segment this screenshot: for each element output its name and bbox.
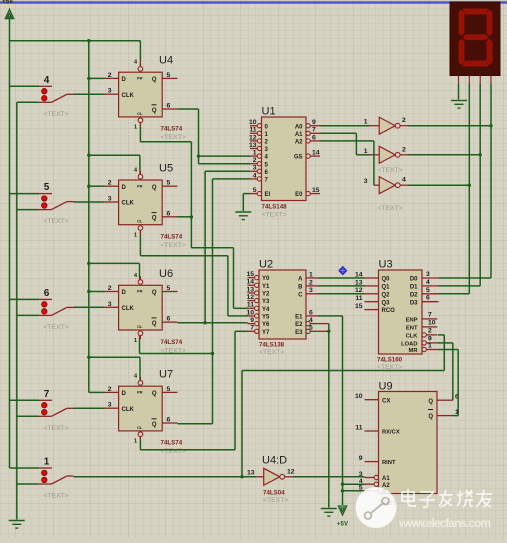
svg-text:E0: E0 — [295, 192, 303, 198]
wire: switch6 output to U6 CLK — [74, 306, 105, 308]
svg-text:CLK: CLK — [122, 201, 135, 207]
svg-text:Y6: Y6 — [262, 322, 270, 328]
wire: U2 B to U3 Q1 — [318, 285, 365, 287]
svg-text:Q2: Q2 — [382, 292, 391, 298]
svg-text:11: 11 — [249, 127, 256, 134]
svg-text:CLK: CLK — [122, 93, 135, 99]
svg-text:A0: A0 — [295, 124, 303, 130]
svg-text:2: 2 — [108, 72, 112, 79]
svg-text:B: B — [298, 285, 303, 291]
wire: display pin b column down to U3 D2 — [439, 84, 470, 294]
wire: switch5 output to U5 CLK — [74, 201, 105, 203]
buffer gate G1 (from U1 A0) — [364, 117, 408, 134]
wire: rail C to U4 D — [87, 77, 104, 80]
svg-text:D0: D0 — [410, 277, 418, 283]
wire: switch7 output to U7 CLK — [74, 407, 105, 409]
wire: +5V left rail — [9, 19, 11, 469]
wire: U9 Q up to U3 LOAD — [437, 343, 453, 400]
svg-text:<TEXT>: <TEXT> — [259, 349, 284, 356]
svg-text:Q: Q — [428, 414, 433, 420]
decorative watermark (not a circuit element) — [356, 487, 493, 530]
svg-text:PR: PR — [137, 390, 143, 395]
svg-text:A2: A2 — [295, 140, 303, 146]
svg-text:www.elecfans.com: www.elecfans.com — [398, 516, 491, 530]
wire: U7 CLR chain up to U2 Y7 — [140, 331, 247, 450]
svg-text:74LS74: 74LS74 — [161, 339, 183, 346]
svg-text:+5V: +5V — [337, 521, 349, 528]
svg-text:4: 4 — [402, 177, 406, 184]
svg-text:6: 6 — [309, 309, 313, 316]
svg-text:5: 5 — [167, 285, 171, 292]
wire: rail C to U5 D — [87, 185, 104, 188]
svg-text:10: 10 — [246, 309, 254, 316]
svg-text:<TEXT>: <TEXT> — [43, 218, 68, 225]
wire: U4:D output to U9 A1 — [293, 476, 365, 478]
svg-text:3: 3 — [108, 301, 112, 308]
svg-text:15: 15 — [312, 187, 320, 194]
7-segment display — [450, 2, 500, 84]
svg-text:Q3: Q3 — [382, 300, 391, 306]
svg-text:CLK: CLK — [406, 334, 419, 340]
svg-text:3: 3 — [426, 271, 430, 278]
svg-text:U4:D: U4:D — [262, 455, 287, 467]
svg-text:2: 2 — [108, 386, 112, 393]
svg-text:6: 6 — [312, 134, 316, 141]
wire: gate G3 output to display pin b — [408, 184, 471, 187]
svg-text:E3: E3 — [295, 330, 303, 336]
svg-text:4: 4 — [253, 172, 257, 179]
svg-text:1: 1 — [44, 457, 50, 468]
wire: rail C to U6 PR — [87, 262, 139, 280]
wire: rail C end to U7 D — [89, 391, 105, 393]
svg-text:10: 10 — [355, 393, 363, 400]
IC U3 (74LS160 counter) — [355, 259, 439, 372]
svg-text:<TEXT>: <TEXT> — [43, 493, 68, 500]
svg-text:Y0: Y0 — [262, 276, 270, 282]
ground: near U1 EI — [235, 212, 251, 220]
svg-text:D: D — [122, 77, 127, 83]
wire: display pin a to ground — [458, 84, 460, 100]
svg-text:3: 3 — [364, 178, 368, 185]
svg-text:3: 3 — [253, 165, 257, 172]
svg-text:<TEXT>: <TEXT> — [263, 497, 288, 504]
svg-text:D1: D1 — [410, 285, 418, 291]
svg-text:13: 13 — [246, 286, 254, 293]
svg-text:5: 5 — [426, 287, 430, 294]
svg-text:C: C — [298, 292, 303, 298]
wire: U2 E2/E3 to ground — [318, 324, 330, 508]
wire: U2 E1 to +5V rail — [318, 316, 344, 505]
svg-text:D3: D3 — [410, 300, 418, 306]
svg-text:CLK: CLK — [122, 407, 135, 413]
svg-text:1: 1 — [364, 148, 368, 155]
svg-text:5: 5 — [167, 180, 171, 187]
buffer gate G3 (from U1 A2) — [364, 177, 408, 194]
wire: U2 A to U3 Q0 — [318, 277, 365, 279]
switch 1 — [10, 457, 74, 500]
svg-text:1: 1 — [309, 271, 313, 278]
svg-text:74LS74: 74LS74 — [161, 126, 183, 133]
wire: U5 CLR chain down to U2 Y5 — [140, 230, 247, 316]
wire: U6 CLR to U7 Qbar and U1 input7 — [140, 179, 251, 424]
svg-text:D: D — [122, 391, 127, 397]
svg-text:3: 3 — [108, 402, 112, 409]
svg-text:PR: PR — [137, 183, 143, 188]
wire: rail C to U5 PR — [87, 154, 140, 175]
wire: blue top border — [0, 1, 507, 3]
wire: gate G1 output to display pin d — [408, 124, 493, 127]
svg-text:74LS138: 74LS138 — [259, 342, 285, 349]
svg-text:CLK: CLK — [122, 306, 135, 312]
svg-text:GS: GS — [294, 155, 303, 161]
wire: display pin d column down to U3 D0 — [439, 84, 492, 278]
svg-text:PR: PR — [137, 289, 143, 294]
svg-text:Q: Q — [428, 399, 433, 405]
wire: display pin c column down to U3 D1 — [439, 84, 481, 286]
svg-text:12: 12 — [287, 468, 295, 475]
wire: U4 CLR chain down to U2 Y4 — [140, 122, 247, 308]
svg-text:<TEXT>: <TEXT> — [377, 167, 402, 174]
power +5V arrow terminal top-left — [5, 10, 13, 19]
svg-text:2: 2 — [309, 279, 313, 286]
switch 5 — [10, 182, 74, 225]
svg-text:RINT: RINT — [382, 460, 396, 466]
svg-text:5: 5 — [309, 325, 313, 332]
svg-text:U9: U9 — [379, 381, 393, 393]
svg-text:5: 5 — [167, 386, 171, 393]
svg-text:U7: U7 — [159, 369, 173, 381]
svg-text:1: 1 — [253, 150, 257, 157]
switch 7 — [10, 389, 74, 432]
svg-text:1: 1 — [134, 125, 137, 131]
svg-text:Q: Q — [152, 185, 157, 191]
IC U9 (74121 monostable) — [355, 381, 459, 508]
svg-text:Y1: Y1 — [262, 284, 270, 290]
svg-text:<TEXT>: <TEXT> — [43, 324, 68, 331]
svg-text:74LS160: 74LS160 — [377, 357, 403, 364]
ground: display common — [451, 101, 467, 109]
svg-text:Q: Q — [152, 321, 157, 327]
svg-text:U1: U1 — [262, 106, 276, 118]
svg-text:E2: E2 — [295, 322, 303, 328]
svg-text:3: 3 — [309, 287, 313, 294]
ground: below U2 enable chain — [321, 509, 337, 517]
svg-text:4: 4 — [426, 279, 430, 286]
svg-text:74LS74: 74LS74 — [161, 234, 183, 241]
svg-text:15: 15 — [246, 271, 254, 278]
svg-text:ENP: ENP — [406, 318, 418, 324]
svg-text:3: 3 — [108, 88, 112, 95]
svg-text:U6: U6 — [159, 268, 173, 280]
svg-text:9: 9 — [250, 317, 254, 324]
svg-text:CL: CL — [137, 324, 143, 329]
IC U1 (74LS148 priority encoder) — [249, 106, 320, 219]
svg-text:RCO: RCO — [382, 308, 396, 314]
IC U2 (74LS138 decoder) — [246, 259, 318, 357]
svg-text:D2: D2 — [410, 292, 418, 298]
svg-text:4: 4 — [309, 317, 313, 324]
switch 4 — [10, 75, 74, 118]
wire: U1 A0 to gate G1 — [320, 125, 370, 127]
svg-text:Y3: Y3 — [262, 299, 270, 305]
svg-text:11: 11 — [355, 295, 362, 302]
svg-text:10: 10 — [428, 320, 436, 327]
svg-text:LOAD: LOAD — [401, 342, 417, 348]
svg-text:Y4: Y4 — [262, 307, 270, 313]
wire: U1 EI to ground — [243, 194, 250, 211]
svg-text:<TEXT>: <TEXT> — [262, 212, 287, 219]
svg-text:2: 2 — [402, 146, 406, 153]
svg-text:<TEXT>: <TEXT> — [161, 242, 186, 249]
flip-flop U7 (74LS74) — [105, 369, 186, 456]
wire: rail C to U7 PR — [87, 356, 140, 381]
svg-text:11: 11 — [355, 424, 362, 431]
wire: U9 B to +5V net — [343, 490, 365, 492]
svg-text:6: 6 — [167, 210, 171, 217]
svg-text:4: 4 — [44, 75, 50, 86]
flip-flop U6 (74LS74) — [105, 268, 186, 355]
svg-text:U4: U4 — [159, 55, 173, 67]
svg-text:13: 13 — [249, 142, 257, 149]
svg-text:12: 12 — [246, 294, 254, 301]
wire: vertical +5V distribution rail C — [88, 41, 90, 393]
svg-text:1: 1 — [428, 342, 432, 349]
svg-text:CL: CL — [137, 111, 143, 116]
wire: switch1 output to U4:D input — [74, 475, 257, 478]
flip-flop U5 (74LS74) — [105, 163, 186, 250]
svg-text:6: 6 — [167, 103, 171, 110]
label TEXT under gate G2 — [377, 167, 402, 174]
switch 6 — [10, 288, 74, 331]
svg-text:74LS148: 74LS148 — [262, 204, 288, 211]
svg-text:7: 7 — [250, 325, 254, 332]
svg-text:10: 10 — [249, 119, 257, 126]
svg-text:Q1: Q1 — [382, 285, 391, 291]
svg-text:1: 1 — [364, 119, 368, 126]
inverter U4:D (74LS04) — [247, 455, 295, 505]
svg-text:Q: Q — [152, 108, 157, 114]
svg-text:Q0: Q0 — [382, 277, 391, 283]
svg-text:6: 6 — [167, 417, 171, 424]
svg-text:A2: A2 — [382, 483, 390, 489]
svg-text:2: 2 — [428, 328, 432, 335]
label TEXT under gate G3 — [377, 205, 402, 212]
svg-text:A1: A1 — [382, 476, 390, 482]
svg-text:E1: E1 — [295, 315, 303, 321]
svg-text:Q: Q — [152, 422, 157, 428]
wire: U4:D input tap up to U3 CLK — [242, 335, 444, 477]
wire: U1 A1 to gate G2 — [320, 133, 370, 155]
wire: U9 A2 to +5V net — [343, 483, 365, 485]
svg-text:U5: U5 — [159, 163, 173, 175]
power +5V arrow terminal bottom — [337, 506, 349, 528]
wire: U9 Qbar up to U3 MR — [437, 350, 458, 416]
svg-text:1: 1 — [134, 233, 137, 239]
svg-text:2: 2 — [108, 285, 112, 292]
svg-text:<TEXT>: <TEXT> — [43, 111, 68, 118]
svg-text:Y2: Y2 — [262, 292, 270, 298]
svg-text:A: A — [298, 277, 303, 283]
svg-text:11: 11 — [247, 302, 254, 309]
svg-text:D: D — [122, 290, 127, 296]
svg-text:9: 9 — [312, 119, 316, 126]
wire: gate G2 output to display pin c — [408, 153, 482, 156]
svg-text:D: D — [122, 185, 127, 191]
wire: top horizontal +5V feed — [10, 39, 141, 42]
svg-text:2: 2 — [402, 117, 406, 124]
svg-text:RX/CX: RX/CX — [382, 430, 400, 436]
svg-text:2: 2 — [253, 157, 257, 164]
wire: U4 Qbar to U1 inputs 4 and 5 — [178, 109, 251, 164]
svg-text:Y7: Y7 — [262, 330, 270, 336]
svg-text:5: 5 — [44, 182, 50, 193]
svg-text:1: 1 — [134, 338, 137, 344]
svg-text:<TEXT>: <TEXT> — [43, 425, 68, 432]
svg-text:Q: Q — [152, 391, 157, 397]
svg-text:15: 15 — [355, 303, 363, 310]
svg-text:CX: CX — [382, 398, 390, 404]
svg-text:3: 3 — [108, 196, 112, 203]
wire: U2 C to U3 Q2 — [318, 293, 365, 295]
svg-text:<TEXT>: <TEXT> — [161, 134, 186, 141]
svg-text:ENT: ENT — [406, 326, 418, 332]
node: blue origin marker — [339, 267, 347, 275]
wire: U4 PR from +5V feed — [139, 41, 141, 66]
svg-text:1: 1 — [134, 439, 137, 445]
svg-text:EI: EI — [265, 192, 271, 198]
wire: U6 Qbar to U1 input6 and U2 Y6 — [178, 171, 251, 324]
svg-text:6: 6 — [426, 295, 430, 302]
svg-text:+5V: +5V — [2, 0, 14, 5]
svg-text:Q: Q — [152, 77, 157, 83]
svg-text:13: 13 — [247, 470, 255, 477]
svg-text:6: 6 — [44, 288, 50, 299]
svg-text:7: 7 — [44, 389, 50, 400]
svg-text:7: 7 — [428, 312, 432, 319]
svg-text:5: 5 — [253, 187, 257, 194]
svg-text:Q: Q — [152, 290, 157, 296]
buffer gate G2 (from U1 A1) — [364, 146, 408, 163]
svg-text:Q: Q — [152, 216, 157, 222]
svg-text:5: 5 — [167, 72, 171, 79]
svg-text:U2: U2 — [259, 259, 273, 271]
svg-text:6: 6 — [167, 316, 171, 323]
wire: rail C to U6 D — [87, 290, 104, 293]
svg-text:74LS04: 74LS04 — [263, 490, 285, 497]
svg-text:Y5: Y5 — [262, 315, 270, 321]
svg-text:PR: PR — [137, 76, 143, 81]
svg-text:CL: CL — [137, 219, 143, 224]
wire: switch4 output to U4 CLK — [74, 93, 105, 95]
wire: U5 Qbar to U4 CLR chain — [178, 216, 192, 218]
flip-flop U4 (74LS74) — [105, 55, 186, 142]
wire: U1 A2 to gate G3 — [320, 141, 374, 185]
svg-text:U3: U3 — [379, 259, 393, 271]
wire: ground left rail — [16, 102, 18, 519]
svg-text:12: 12 — [249, 134, 257, 141]
svg-text:2: 2 — [108, 180, 112, 187]
svg-text:74LS74: 74LS74 — [161, 440, 183, 447]
svg-text:7: 7 — [312, 127, 316, 134]
svg-text:CL: CL — [137, 425, 143, 430]
svg-text:14: 14 — [246, 279, 254, 286]
svg-text:MR: MR — [408, 348, 418, 354]
svg-text:14: 14 — [312, 150, 320, 157]
svg-text:A1: A1 — [295, 132, 303, 138]
svg-text:<TEXT>: <TEXT> — [377, 205, 402, 212]
ground: bottom-left rail ground — [9, 521, 25, 529]
svg-text:9: 9 — [359, 455, 363, 462]
